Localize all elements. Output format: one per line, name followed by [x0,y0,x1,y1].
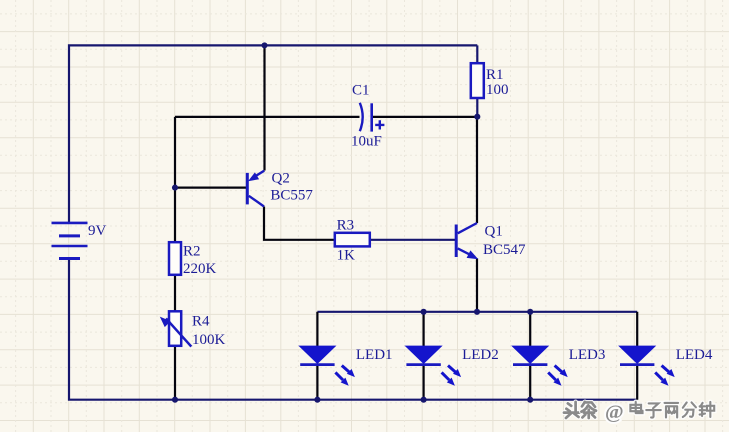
svg-text:LED1: LED1 [356,347,393,363]
svg-text:R2: R2 [183,244,201,260]
svg-text:Q2: Q2 [272,171,290,187]
svg-text:LED3: LED3 [569,347,606,363]
svg-text:1K: 1K [337,248,356,264]
svg-text:100K: 100K [192,332,226,348]
svg-text:BC557: BC557 [270,188,313,204]
svg-text:Q1: Q1 [485,224,503,240]
svg-text:LED4: LED4 [676,347,713,363]
svg-text:BC547: BC547 [483,242,526,258]
svg-text:220K: 220K [183,261,217,277]
svg-text:9V: 9V [88,223,107,239]
svg-text:@: @ [605,402,624,424]
svg-text:100: 100 [486,82,509,98]
svg-text:C1: C1 [352,83,370,99]
svg-text:10uF: 10uF [351,134,382,150]
svg-text:LED2: LED2 [462,347,499,363]
svg-text:R1: R1 [486,67,504,83]
svg-text:R3: R3 [337,218,355,234]
svg-text:R4: R4 [192,314,210,330]
